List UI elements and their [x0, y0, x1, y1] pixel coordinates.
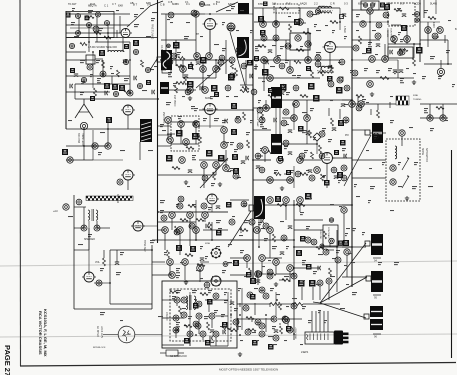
node 307 — [425, 27, 432, 34]
junction — [293, 204, 295, 206]
wire — [279, 323, 281, 325]
svg-text:5U4G: 5U4G — [430, 2, 437, 6]
value label — [187, 186, 190, 187]
wire — [253, 107, 271, 109]
resistor Rb356 — [294, 61, 301, 64]
tube V304 audio out — [82, 272, 96, 282]
label C203 — [262, 69, 269, 76]
label C302 — [384, 4, 390, 10]
node x81 — [373, 133, 379, 139]
connector P3 yoke lower — [370, 319, 383, 330]
wire — [423, 0, 425, 18]
label Ln307 — [247, 60, 253, 66]
value label — [272, 246, 277, 249]
node 150 — [267, 197, 274, 204]
svg-text:TWIN LEAD: TWIN LEAD — [81, 133, 84, 146]
node x3 — [171, 53, 177, 59]
dashed power inner box — [170, 289, 231, 341]
wire — [306, 100, 308, 118]
node b310 — [241, 63, 247, 69]
wire — [420, 21, 440, 23]
node 157 — [273, 259, 280, 266]
label C126 — [338, 120, 344, 126]
node 170 — [204, 282, 210, 288]
wire — [78, 17, 80, 33]
wire — [278, 318, 302, 320]
wire — [172, 59, 196, 61]
junction — [252, 59, 254, 61]
node 127 — [297, 157, 304, 164]
schematic bottom border — [20, 363, 456, 367]
value label — [68, 216, 73, 217]
value label — [300, 280, 305, 283]
ground — [412, 80, 416, 85]
node t118 — [69, 43, 74, 48]
junction — [263, 59, 265, 61]
capacitor Cb500 — [344, 154, 347, 158]
wire — [285, 203, 287, 220]
capacitor Cb442 — [288, 152, 292, 155]
capacitor C103 — [184, 75, 188, 78]
wire stub — [433, 36, 439, 38]
node x14 — [328, 81, 334, 87]
label Lb356 — [268, 88, 273, 93]
node 12 — [67, 157, 73, 163]
value label — [200, 246, 203, 249]
value label — [260, 148, 263, 151]
node 124 — [291, 115, 298, 122]
value label — [176, 275, 180, 278]
label Ln570 — [306, 264, 312, 270]
value 47 — [222, 120, 226, 123]
value label — [268, 260, 271, 261]
value 470 — [300, 212, 304, 215]
node x67 — [281, 120, 287, 126]
junction — [88, 41, 90, 43]
value label — [210, 342, 214, 343]
junction — [351, 246, 353, 248]
node x93 — [256, 271, 262, 277]
wire — [200, 261, 209, 263]
link box — [365, 130, 370, 135]
resistor Rx128 — [229, 329, 237, 332]
junction — [157, 211, 159, 213]
value label — [228, 244, 232, 245]
resistor R172 — [179, 306, 182, 314]
value label — [280, 46, 284, 49]
node above contrast — [329, 218, 333, 222]
node 158 — [287, 265, 294, 272]
resistor R306 — [413, 58, 416, 66]
resistor Rb262 — [175, 86, 178, 93]
wire — [162, 317, 184, 319]
node 103 — [206, 53, 213, 60]
value .01 — [297, 75, 301, 78]
value label — [261, 228, 265, 229]
resistor R115 — [213, 172, 216, 180]
node 145 — [193, 227, 200, 234]
node b384 — [293, 85, 299, 91]
capacitor Cn432 — [206, 224, 209, 228]
wire — [282, 117, 294, 119]
value label — [100, 132, 105, 133]
capacitor Cb328 — [266, 60, 269, 64]
wire — [442, 104, 444, 118]
value label — [192, 204, 196, 205]
svg-text:6CB6: 6CB6 — [204, 4, 211, 7]
discriminator box — [290, 33, 310, 50]
wire — [352, 77, 414, 79]
node n490 — [309, 175, 315, 181]
wire — [215, 168, 217, 175]
label Ln290 — [260, 30, 266, 36]
node b232 — [167, 59, 173, 65]
wire — [406, 26, 408, 44]
node n292 — [229, 57, 235, 63]
value label — [344, 104, 348, 105]
wire tuner bottom rail — [66, 37, 157, 39]
node 161 — [341, 207, 347, 213]
wire — [333, 157, 352, 159]
wire — [225, 150, 227, 168]
svg-text:MOST-OFTEN-NEEDED 1957 TELEVIS: MOST-OFTEN-NEEDED 1957 TELEVISION — [219, 368, 278, 372]
value label — [195, 56, 198, 57]
wire — [357, 96, 359, 104]
ground — [184, 280, 188, 285]
label Lt226 — [146, 80, 151, 85]
node n484 — [181, 297, 187, 303]
svg-text:10000: 10000 — [319, 72, 326, 74]
value label — [428, 186, 433, 187]
value label — [260, 290, 264, 291]
value 1K — [240, 250, 244, 253]
tube V102 2nd pix IF — [203, 104, 218, 115]
wire boost rail — [294, 246, 352, 248]
wire — [70, 13, 130, 15]
resistor R143 — [209, 222, 212, 230]
node 107 — [187, 87, 194, 94]
node 151 — [283, 197, 290, 204]
value label — [268, 336, 273, 337]
wire — [279, 303, 294, 305]
resistor R206 — [321, 68, 324, 76]
svg-text:21EP4: 21EP4 — [301, 351, 309, 354]
capacitor Cn512 — [334, 176, 338, 179]
svg-text:2ND PIX IF: 2ND PIX IF — [162, 112, 164, 124]
resistor Rn470 — [240, 229, 248, 232]
junction — [307, 59, 309, 61]
wire right border — [451, 150, 453, 358]
svg-text:NOISE: NOISE — [421, 148, 423, 156]
wire — [215, 60, 217, 78]
wire stub — [326, 249, 334, 251]
label C112 — [218, 155, 225, 162]
node 159 — [255, 271, 262, 278]
label Lt138 — [70, 68, 75, 73]
wire — [294, 229, 323, 231]
value label — [412, 186, 417, 189]
coil L104 video det — [271, 134, 282, 154]
resistor R310 — [356, 95, 364, 98]
value 10K — [208, 207, 212, 210]
value 40MF — [176, 322, 180, 327]
node n546 — [267, 273, 273, 279]
svg-text:SATURATOR: SATURATOR — [425, 148, 428, 162]
junction — [239, 314, 241, 316]
wire — [307, 28, 309, 60]
wire — [150, 1, 163, 6]
value label — [272, 45, 276, 46]
resistor R320 — [103, 258, 106, 266]
value label — [254, 66, 258, 69]
junction — [265, 107, 267, 109]
node 202 — [273, 21, 280, 28]
svg-text:LOCK 117V: LOCK 117V — [100, 326, 102, 339]
ground — [275, 95, 279, 100]
node 116 — [221, 142, 228, 149]
value 3.3K — [99, 28, 103, 31]
node b382 — [315, 61, 321, 67]
wire — [180, 126, 182, 144]
wire — [294, 267, 320, 269]
value label — [214, 44, 219, 45]
wire — [195, 126, 197, 144]
wire — [162, 344, 184, 346]
wire — [307, 28, 309, 40]
node n598 — [335, 257, 341, 263]
tube V202 audio output — [323, 42, 338, 53]
value 330 — [390, 120, 394, 123]
value label — [239, 235, 243, 236]
value label — [413, 73, 416, 74]
power supply box — [162, 281, 237, 348]
link box mid — [339, 77, 343, 81]
resistor Rx27 — [331, 65, 334, 73]
value label — [438, 76, 442, 79]
value label — [314, 24, 317, 27]
wire — [339, 8, 341, 30]
value label — [306, 170, 309, 171]
node b458 — [299, 153, 305, 159]
value label — [186, 22, 190, 23]
junction — [265, 314, 267, 316]
label R111 — [166, 155, 173, 162]
value label — [234, 96, 238, 97]
label C150 — [305, 193, 312, 200]
capacitor Cx61 — [341, 104, 345, 107]
node n492 — [263, 223, 269, 229]
wire audio box bottom — [74, 308, 152, 310]
value 1500 — [203, 118, 207, 121]
capacitor C124 — [256, 166, 260, 169]
value 8.2K — [302, 260, 306, 265]
wire — [384, 44, 386, 60]
node tone 1 — [363, 3, 367, 7]
wire stub — [328, 108, 330, 116]
value label — [342, 148, 346, 151]
node 205 — [305, 41, 311, 47]
value label — [111, 73, 114, 74]
wire — [179, 233, 181, 255]
value label — [250, 120, 253, 123]
socket lead comb — [312, 311, 328, 332]
wire — [300, 159, 321, 161]
resistor R113 — [199, 135, 202, 143]
node 320 — [81, 225, 87, 231]
value label — [214, 118, 219, 121]
value label — [194, 108, 198, 111]
value 117V — [172, 296, 176, 299]
value label — [236, 326, 241, 327]
node n524 — [195, 323, 201, 329]
wire — [312, 287, 314, 300]
wire — [253, 129, 271, 131]
resistor Rx4 — [176, 82, 184, 85]
wire — [158, 145, 171, 147]
node tone 2 — [370, 3, 374, 7]
wire — [282, 143, 317, 145]
node 204 — [295, 35, 301, 41]
value label — [338, 180, 341, 183]
label C2 — [85, 16, 90, 21]
wire — [352, 9, 388, 11]
wire — [84, 145, 108, 147]
inductor L302 — [395, 146, 397, 159]
wire sync bus — [152, 239, 294, 241]
svg-text:TUNING: TUNING — [413, 99, 422, 101]
wire — [66, 91, 110, 93]
IF transformer Z201 — [317, 6, 333, 14]
capacitor Cn606 — [274, 330, 278, 333]
value label — [200, 278, 203, 279]
wire sound strip border — [351, 0, 353, 287]
value 68K — [285, 60, 289, 63]
link box flyback — [249, 205, 254, 211]
value label — [150, 240, 155, 243]
value label — [254, 288, 258, 289]
wire — [129, 42, 131, 93]
wire tuner left border — [65, 11, 67, 129]
node n382 — [259, 117, 265, 123]
wire slant to T101 — [150, 59, 157, 70]
value label — [313, 271, 317, 274]
wire — [110, 249, 152, 251]
wire — [158, 221, 196, 223]
junction — [215, 59, 217, 61]
svg-text:6W4: 6W4 — [386, 2, 392, 6]
node t226 — [137, 83, 142, 88]
value label — [234, 149, 238, 152]
node b472 — [295, 171, 301, 177]
resistor R303 — [399, 49, 408, 52]
resistor R5 — [94, 32, 101, 35]
value label — [390, 96, 393, 97]
resistor Rx113 — [86, 16, 94, 19]
wire — [328, 284, 330, 300]
junction — [209, 13, 211, 15]
adjust arrow C310 — [402, 157, 409, 170]
svg-text:4.5MC: 4.5MC — [343, 26, 346, 33]
label R302 — [401, 25, 407, 31]
value label — [274, 170, 278, 173]
node 302 — [360, 21, 366, 27]
wire — [167, 122, 169, 140]
value label — [378, 262, 382, 265]
wire — [262, 273, 268, 275]
node x88 — [241, 201, 247, 207]
node 4 — [96, 12, 101, 17]
resistor R307 — [380, 77, 389, 80]
junction — [293, 246, 295, 248]
wire — [176, 303, 178, 306]
value label — [208, 290, 212, 293]
wire — [275, 292, 277, 316]
coil L103 3rd pix IF — [271, 87, 282, 108]
value label — [330, 204, 334, 205]
node 7 — [76, 31, 81, 36]
resistor R174 — [222, 327, 229, 330]
value label — [120, 150, 125, 151]
capacitor C113 — [188, 170, 192, 173]
tube V106 AGC — [205, 194, 219, 204]
wire — [75, 83, 130, 85]
value 470K — [356, 14, 360, 17]
wire — [370, 132, 386, 134]
page fold line — [0, 334, 457, 337]
svg-text:PAGE 27: PAGE 27 — [3, 345, 12, 375]
resistor Rn508 — [273, 234, 276, 242]
value label — [173, 83, 177, 86]
value label — [306, 226, 310, 229]
value label — [284, 276, 289, 277]
resistor R158 — [268, 273, 276, 276]
value label — [220, 326, 225, 327]
value label — [236, 30, 239, 31]
wire — [66, 159, 93, 161]
wire video strip border — [252, 0, 254, 284]
value label — [308, 320, 312, 323]
node 322 — [96, 280, 102, 286]
value label — [74, 36, 79, 37]
capacitor Cb396 — [328, 66, 332, 69]
value label — [227, 171, 231, 172]
label R155 — [338, 241, 343, 246]
node n414 — [375, 33, 381, 39]
wire stub — [257, 155, 263, 157]
ground — [280, 186, 284, 191]
dashed AGC keyer box — [171, 116, 199, 151]
wire — [203, 229, 228, 231]
node 201 — [260, 21, 267, 28]
node 304 — [404, 36, 411, 43]
link box P1 — [365, 241, 370, 246]
wire screen feed — [205, 13, 253, 15]
node t188 — [133, 49, 138, 54]
resistor R14 — [94, 88, 97, 96]
wire — [184, 265, 186, 280]
svg-text:AC INTER: AC INTER — [96, 326, 99, 337]
wire — [122, 38, 124, 52]
node 176 — [187, 331, 193, 337]
wire interlock lead — [103, 334, 118, 336]
wire oscillator link — [127, 6, 150, 27]
svg-text:2 2: 2 2 — [314, 2, 318, 6]
resistor Rx28 — [283, 84, 286, 92]
value label — [81, 81, 85, 84]
junction — [107, 32, 109, 34]
wire sound IF top rail — [254, 7, 340, 9]
node 306 — [382, 56, 389, 63]
